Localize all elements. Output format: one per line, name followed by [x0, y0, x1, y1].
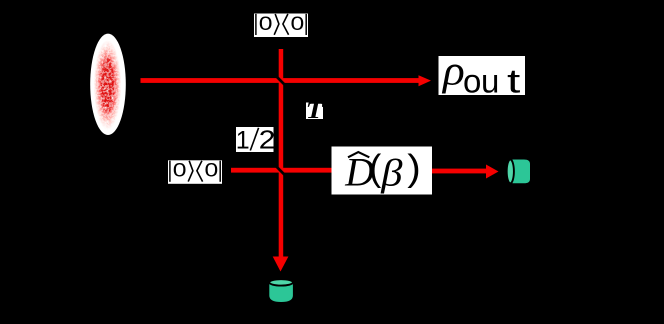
svg-text:0: 0	[291, 13, 305, 35]
svg-text:u: u	[481, 62, 499, 99]
svg-text:o: o	[463, 62, 481, 99]
svg-text:ρ: ρ	[441, 48, 465, 94]
svg-text:β: β	[380, 151, 403, 193]
svg-text:0: 0	[259, 13, 273, 35]
svg-text:): )	[407, 148, 421, 189]
svg-text:2: 2	[259, 125, 276, 154]
svg-text:t: t	[507, 63, 521, 100]
svg-text:1: 1	[236, 126, 250, 154]
svg-text:T: T	[306, 98, 325, 124]
svg-text:(: (	[369, 148, 382, 189]
